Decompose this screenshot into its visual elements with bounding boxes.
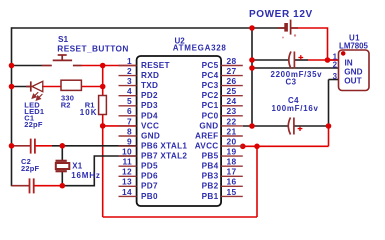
svg-text:C3: C3 xyxy=(286,78,297,87)
wire: C1 to XTAL1 node xyxy=(35,145,52,147)
wire: battery plus to 12V corner xyxy=(291,28,328,60)
svg-text:PB7 XTAL2: PB7 XTAL2 xyxy=(141,152,187,161)
push button S1 xyxy=(42,55,82,66)
svg-text:12: 12 xyxy=(122,167,132,177)
wire: reset net left segment xyxy=(12,65,43,67)
node: U1 GND junction xyxy=(249,65,255,71)
svg-text:POWER 12V: POWER 12V xyxy=(249,9,313,20)
svg-text:ATMEGA328: ATMEGA328 xyxy=(173,44,227,53)
svg-text:PC3: PC3 xyxy=(202,81,219,90)
svg-text:14: 14 xyxy=(122,187,132,197)
svg-text:PB5: PB5 xyxy=(202,152,219,161)
wire: XTAL1 node to pin 9 xyxy=(52,145,137,147)
battery POWER 12V xyxy=(278,20,299,35)
node: reset wire junction xyxy=(100,63,106,69)
svg-text:7: 7 xyxy=(127,116,132,126)
wire: pin 22 GND to C4 minus xyxy=(243,125,288,127)
svg-text:IN: IN xyxy=(345,59,353,68)
svg-text:TXD: TXD xyxy=(141,81,158,90)
capacitor C2 xyxy=(30,178,34,193)
svg-text:6: 6 xyxy=(127,106,132,116)
crystal X1 xyxy=(56,161,70,171)
svg-text:VCC: VCC xyxy=(141,121,159,130)
svg-text:GND: GND xyxy=(141,131,160,140)
svg-text:18: 18 xyxy=(227,157,237,167)
wire: OUT pin 3 xyxy=(329,79,339,81)
IC U2 pin names left xyxy=(141,61,187,201)
svg-text:PD5: PD5 xyxy=(141,162,158,171)
svg-text:3: 3 xyxy=(333,72,338,81)
wire: VCC to pin 7 xyxy=(103,125,137,127)
IC U2 pin stubs right xyxy=(221,66,243,197)
svg-text:PC0: PC0 xyxy=(202,111,219,120)
wire: GND to U1 pin 2 xyxy=(252,67,339,69)
battery polarity marks xyxy=(282,37,284,39)
wire: C4 plus to 5V xyxy=(294,125,329,127)
svg-text:9: 9 xyxy=(127,137,132,147)
wire: GND vertical battery minus xyxy=(251,28,253,126)
svg-text:AVCC: AVCC xyxy=(195,142,219,151)
svg-text:PC4: PC4 xyxy=(202,71,219,80)
svg-text:AREF: AREF xyxy=(195,131,219,140)
wire: C3 plus to IN xyxy=(294,59,308,61)
svg-text:PB0: PB0 xyxy=(141,192,158,201)
IC U2 ATMEGA328 body xyxy=(137,56,222,206)
wire: VCC bottom run xyxy=(103,216,257,218)
wire: R2 to reset vertical xyxy=(82,86,103,88)
svg-text:4: 4 xyxy=(127,86,132,96)
wire: R1 bottom lead to VCC xyxy=(102,115,104,127)
node: rail-LED junction xyxy=(9,84,15,90)
svg-text:OUT: OUT xyxy=(344,77,361,86)
svg-text:16MHz: 16MHz xyxy=(71,171,100,180)
svg-text:X1: X1 xyxy=(72,161,82,170)
node: rail-C1 junction xyxy=(9,143,15,149)
wire: VCC vertical down left of IC xyxy=(102,126,104,217)
wire: C2 to XTAL2 node xyxy=(34,185,62,187)
node: U1 pin1 dot xyxy=(341,51,346,56)
svg-text:2: 2 xyxy=(333,61,338,70)
svg-text:10K: 10K xyxy=(80,108,98,117)
node: battery minus junction xyxy=(249,25,255,31)
wire: C2 lead from rail xyxy=(12,185,30,187)
wire: 5V vertical C4 to OUT xyxy=(328,80,330,127)
svg-text:GND: GND xyxy=(199,121,218,130)
svg-text:21: 21 xyxy=(227,126,237,136)
svg-text:22: 22 xyxy=(227,116,237,126)
svg-text:26: 26 xyxy=(227,76,237,86)
resistor R1 xyxy=(99,96,107,115)
wire: LED to R2 xyxy=(42,86,61,88)
wire: XTAL2 node to pin 10 xyxy=(62,156,137,186)
svg-text:5: 5 xyxy=(127,96,132,106)
voltage regulator U1 LM7805 body xyxy=(339,50,370,91)
svg-text:100mF/16v: 100mF/16v xyxy=(272,104,319,113)
svg-text:PD6: PD6 xyxy=(141,172,158,181)
wire: crystal top lead xyxy=(61,146,63,161)
svg-text:PB2: PB2 xyxy=(202,182,219,191)
svg-text:20: 20 xyxy=(227,137,237,147)
svg-text:3: 3 xyxy=(127,76,132,86)
node: XTAL1 junction xyxy=(60,143,66,149)
node: C4 5V junction xyxy=(326,123,332,129)
svg-text:22pF: 22pF xyxy=(21,164,40,173)
node: AVCC stub junction xyxy=(240,144,246,150)
svg-text:RESET: RESET xyxy=(141,61,170,70)
svg-text:28: 28 xyxy=(227,56,237,66)
svg-text:15: 15 xyxy=(227,187,237,197)
svg-text:24: 24 xyxy=(227,96,237,106)
LED LED1 xyxy=(26,81,43,100)
resistor R2 xyxy=(61,80,81,90)
svg-text:27: 27 xyxy=(227,66,237,76)
svg-text:17: 17 xyxy=(227,167,237,177)
capacitor C1 xyxy=(31,139,35,154)
svg-text:PD2: PD2 xyxy=(141,91,158,100)
node: 12V C3 junction xyxy=(325,57,331,63)
svg-text:GND: GND xyxy=(344,68,362,77)
svg-text:19: 19 xyxy=(227,147,237,157)
svg-text:22pF: 22pF xyxy=(24,120,43,129)
svg-text:1: 1 xyxy=(127,56,132,66)
wire: reset vertical to R1 xyxy=(102,66,104,96)
svg-text:16: 16 xyxy=(227,177,237,187)
svg-text:PC1: PC1 xyxy=(202,101,219,110)
IC U2 pin numbers right xyxy=(227,56,237,197)
svg-text:PB4: PB4 xyxy=(202,162,219,171)
node: XTAL2 junction xyxy=(60,183,66,189)
svg-text:23: 23 xyxy=(227,106,237,116)
svg-text:RESET_BUTTON: RESET_BUTTON xyxy=(57,43,129,53)
wire: GND left rail xyxy=(11,27,13,186)
wire: C3 minus to GND xyxy=(252,59,289,61)
svg-text:LM7805: LM7805 xyxy=(339,41,369,50)
svg-text:PC2: PC2 xyxy=(202,91,219,100)
node: VCC pin7 junction xyxy=(100,123,106,129)
wire: AVCC pin 20 run to regulator output xyxy=(243,145,329,147)
capacitor C4 (polarized) xyxy=(288,118,302,135)
IC U2 pin stubs left xyxy=(119,66,137,197)
wire: C1 lead from rail xyxy=(12,145,31,147)
wire: GND top rail xyxy=(12,27,285,29)
IC U2 pin names right xyxy=(195,61,219,201)
svg-text:PB3: PB3 xyxy=(202,172,219,181)
svg-text:PC5: PC5 xyxy=(202,61,219,70)
node: AVCC vertical junction xyxy=(254,144,260,150)
node: LED-R1 junction xyxy=(100,84,106,90)
svg-text:11: 11 xyxy=(122,157,132,167)
wire: 5V vertical to C4 plus xyxy=(328,126,330,146)
svg-text:8: 8 xyxy=(127,126,132,136)
wire: reset net right segment to pin 1 xyxy=(81,65,137,67)
node: rail-reset junction xyxy=(9,63,15,69)
svg-text:PB6 XTAL1: PB6 XTAL1 xyxy=(141,142,187,151)
svg-text:10: 10 xyxy=(122,147,132,157)
svg-text:25: 25 xyxy=(227,86,237,96)
svg-text:13: 13 xyxy=(122,177,132,187)
svg-text:PD3: PD3 xyxy=(141,101,158,110)
node: C3 GND junction xyxy=(249,57,255,63)
node: pin22 GND junction xyxy=(249,123,255,129)
svg-text:2: 2 xyxy=(127,66,132,76)
capacitor C3 (polarized) xyxy=(289,52,303,69)
IC U2 pin numbers left xyxy=(122,56,132,197)
svg-text:PD7: PD7 xyxy=(141,182,158,191)
wire: crystal bottom lead xyxy=(61,172,63,186)
svg-text:RXD: RXD xyxy=(141,71,159,80)
wire: LED net from rail xyxy=(12,86,31,88)
wire: VCC vertical up to AVCC xyxy=(256,146,258,217)
svg-text:PB1: PB1 xyxy=(202,192,219,201)
wire: C3 plus red to IN pin 1 xyxy=(308,59,339,61)
svg-text:R2: R2 xyxy=(61,100,71,109)
svg-text:PD4: PD4 xyxy=(141,111,158,120)
wire: 12V into IN pin xyxy=(328,59,339,61)
